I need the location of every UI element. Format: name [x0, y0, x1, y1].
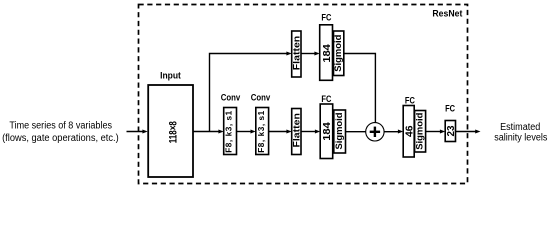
wire fc46 to fc23 [426, 131, 441, 133]
wire output arrow [456, 131, 477, 133]
svg-text:Conv: Conv [221, 92, 241, 103]
fc184 top dense box [320, 25, 333, 81]
svg-text:FC: FC [445, 103, 456, 113]
svg-text:salinity levels: salinity levels [494, 132, 547, 143]
svg-text:FC: FC [321, 13, 332, 23]
svg-text:F8, k3, s1: F8, k3, s1 [225, 110, 234, 152]
conv1 box [224, 108, 237, 155]
svg-text:Sigmoid: Sigmoid [415, 113, 425, 150]
svg-text:Sigmoid: Sigmoid [334, 113, 344, 150]
wire sigmoid top to sum [344, 54, 376, 123]
wire branch up to top path [210, 54, 288, 132]
conv2 box [256, 108, 269, 155]
wire input to conv1 [193, 131, 220, 133]
svg-text:184: 184 [322, 122, 333, 141]
svg-text:Conv: Conv [251, 92, 271, 103]
wire conv1 to conv2 [237, 131, 252, 133]
svg-text:FC: FC [405, 95, 416, 105]
svg-text:Input: Input [160, 69, 181, 80]
dashed ResNet enclosure [139, 5, 468, 184]
sigmoid box fc46 [415, 111, 426, 153]
sigmoid box bottom [334, 110, 346, 153]
svg-text:23: 23 [446, 125, 457, 136]
svg-text:ResNet: ResNet [432, 9, 463, 20]
fc184 bottom dense box [320, 104, 333, 159]
svg-text:Flatten: Flatten [292, 113, 302, 148]
wire flatten bottom to fc184 bottom [301, 131, 316, 133]
sigmoid box top [334, 31, 344, 76]
svg-text:184: 184 [322, 44, 333, 63]
input box [148, 85, 193, 177]
fc23 dense box [445, 121, 455, 142]
svg-text:FC: FC [321, 94, 332, 104]
summation node [366, 123, 384, 141]
wire conv2 to flatten bottom [269, 131, 288, 133]
flatten box top [292, 31, 301, 77]
fc46 dense box [403, 106, 414, 158]
wire sum to fc46 [384, 131, 399, 133]
svg-text:Flatten: Flatten [292, 35, 302, 70]
svg-text:Time series of 8 variables: Time series of 8 variables [9, 120, 112, 131]
svg-text:(flows, gate operations, etc.): (flows, gate operations, etc.) [2, 133, 119, 144]
wire flatten top to fc184 top [301, 53, 316, 55]
wire sigmoid bottom to sum [346, 131, 367, 133]
flatten box bottom [292, 109, 301, 155]
svg-text:F8, k3, s1: F8, k3, s1 [257, 110, 266, 152]
svg-text:Sigmoid: Sigmoid [333, 35, 343, 72]
wire input arrow [127, 131, 144, 133]
svg-text:Estimated: Estimated [500, 122, 540, 133]
svg-text:118×8: 118×8 [167, 121, 179, 143]
